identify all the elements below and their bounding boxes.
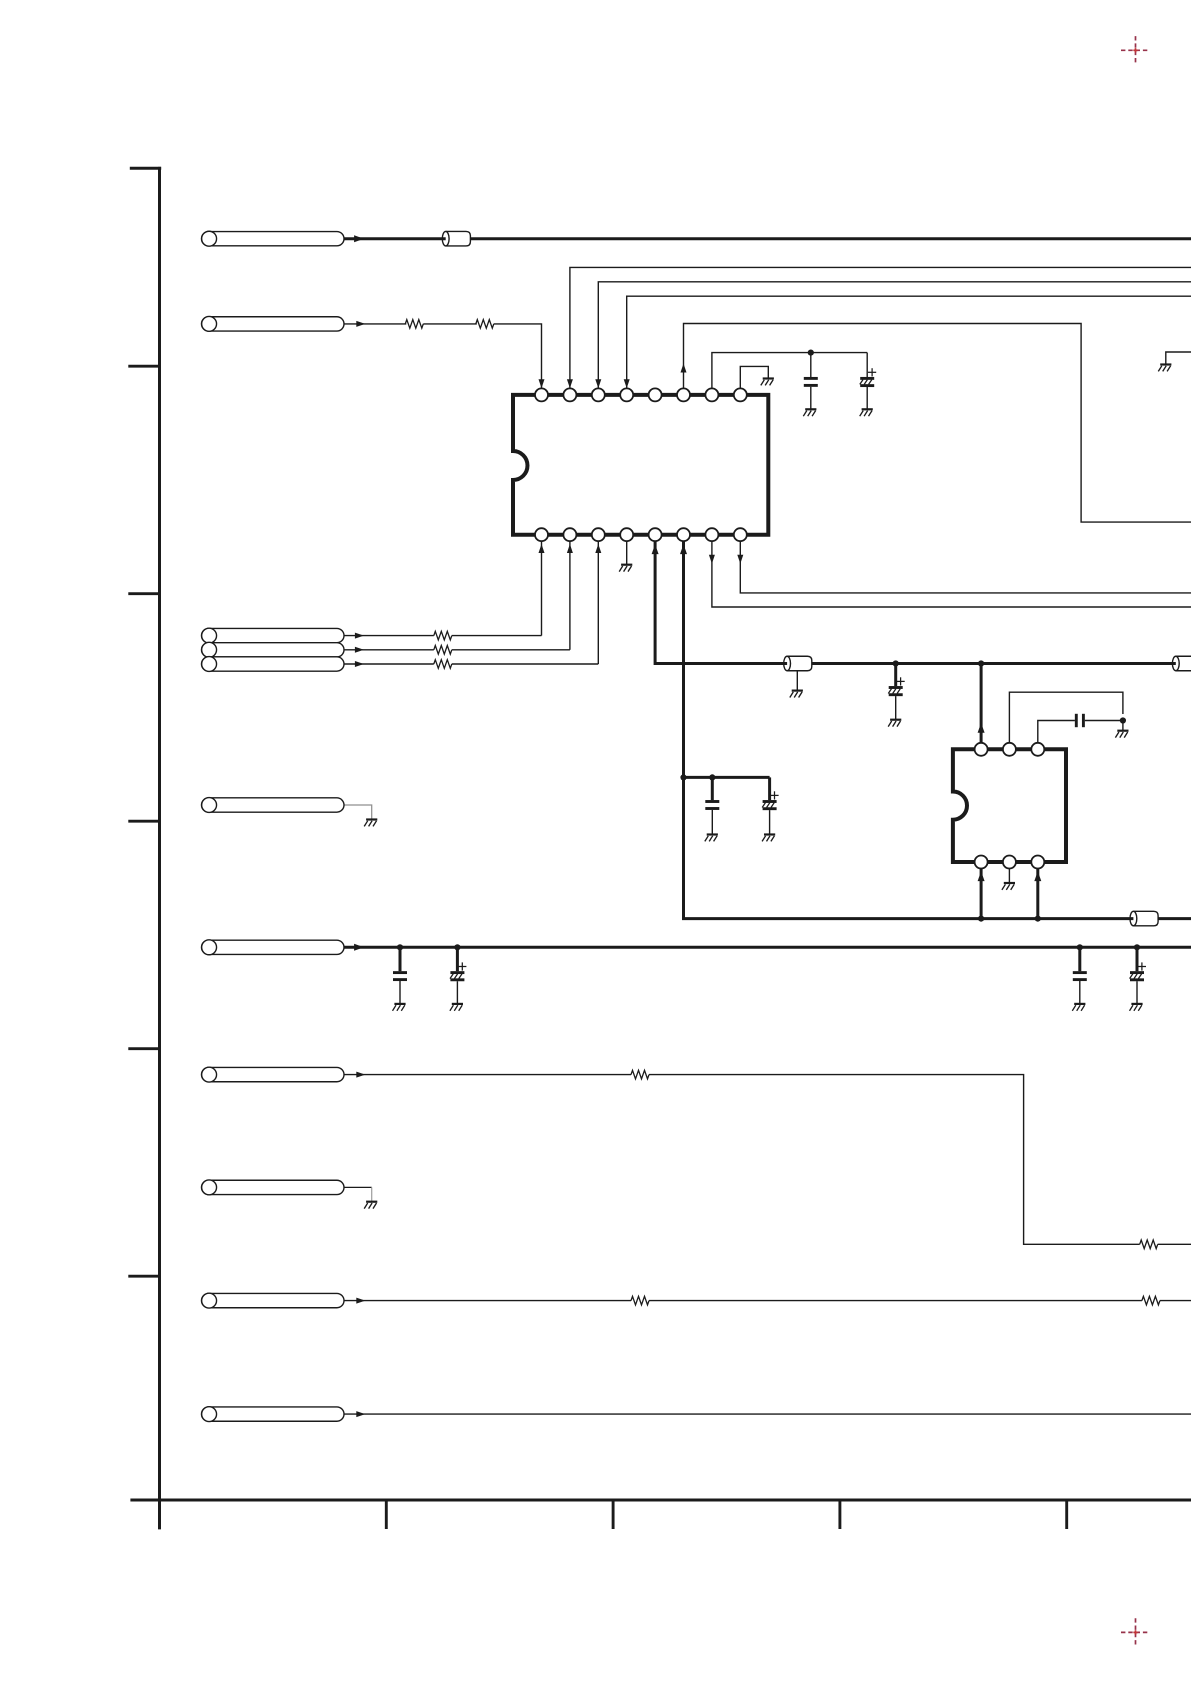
ground C9 [1130,1004,1143,1011]
U1 pin 7 (top) [705,388,718,401]
arrow into U1 pin 2 [567,379,573,388]
wire C1 to ground [810,387,812,409]
U1 pin 6 (top) [677,388,690,401]
arrow into U1 pin 4 [624,379,630,388]
U1 pin 1 (top) [535,388,548,401]
ground U1 pin 13 [619,565,632,572]
wire U2 pin 5 to ground [1008,869,1010,883]
ferrite bead FB2 [784,656,812,671]
wire U1 pin 6 net [684,324,1191,523]
U2 pin 1 (top) [975,743,988,756]
registration mark top right [1121,36,1150,64]
ground page-edge stub [1158,365,1171,372]
wire CN3 to U1 pin 16 riser [541,541,543,635]
node junction U2 pin 4 feed [978,916,984,922]
wire R9 to page edge [1160,1300,1191,1302]
arrow CN4 signal direction [355,647,364,653]
arrow into U2 pin 6 [1034,871,1041,881]
page frame bottom border [130,1499,1191,1502]
wire U1 pin 9 net [740,541,1191,593]
U1 pin 14 (bottom) [592,528,605,541]
wire U1 pin 7 net [712,353,867,389]
wire CN7 bus (thick) [344,946,1191,949]
node junction C6 [397,944,403,950]
U1 pin 16 (bottom) [535,528,548,541]
wire FB2 ground stub [796,671,798,690]
ground C8 [1072,1004,1085,1011]
wire C8 to ground [1079,981,1081,1003]
connector CN1 [202,231,345,246]
node junction C3 [893,660,899,666]
capacitor C8 [1073,973,1087,980]
page frame bottom tick 2 [612,1500,615,1529]
capacitor C7 (electrolytic) [450,962,466,979]
wire stem C3 (thick) [894,664,897,687]
page frame bottom tick 1 [385,1500,388,1529]
U2 pin 2 (top) [1003,743,1016,756]
wire CN10 to R8 [344,1300,631,1302]
U1 pin 3 (top) [592,388,605,401]
U1 pin 12 (bottom) [649,528,662,541]
wire stem C2 [866,353,868,377]
connector CN5 [202,657,345,672]
wire CN11 to page edge [344,1413,1191,1415]
wire pin11 branch (thick) [684,776,770,779]
ground C5 [762,835,775,842]
wire U1 pin 4 net [627,296,1191,388]
U1 pin 13 (bottom) [620,528,633,541]
page frame left tick 6 [128,1275,159,1278]
resistor R9 [1142,1296,1160,1305]
capacitor C3 (electrolytic) [888,677,904,694]
wire C5 to ground [769,810,771,834]
U1 pin 8 (top) [734,388,747,401]
arrow into U1 pin 1 [539,379,545,388]
wire U1 pin 3 net [598,282,1191,388]
wire CN2 to R1 [344,323,406,325]
capacitor C9 (electrolytic) [1130,962,1146,979]
U1 pin 5 (top) [649,388,662,401]
wire R6 to R7 [649,1075,1140,1245]
connector CN7 [202,940,345,955]
U2 pin 5 (bottom) [1003,856,1016,869]
resistor R4 [434,646,452,655]
arrow out of U1 pin 9 [737,555,743,564]
op-amp IC U1 body [513,395,768,535]
wire stem C9 (thick) [1136,947,1139,971]
U1 pin 10 (bottom) [705,528,718,541]
ferrite bead FB1 [442,231,470,246]
node junction U2 supply [978,660,984,666]
wire junction to U2 pin 4 (thick) [980,869,983,919]
arrow CN8 signal direction [356,1072,365,1078]
wire R3 to riser [452,635,542,637]
wire junction to U2 pin 1 (thick) [980,664,983,743]
ground C2 [860,409,873,416]
connector CN4 [202,642,345,657]
node junction C4 [709,774,715,780]
wire stem C5 (thick) [768,777,771,800]
wire U1 pin 8 net [740,366,768,388]
arrow out of U1 pin 10 [709,555,715,564]
resistor R1 [405,320,423,329]
ground C4 [705,835,718,842]
wire stem C8 (thick) [1078,947,1081,971]
page frame bottom tick 4 [1065,1500,1068,1529]
connector CN8 [202,1067,345,1082]
wire C6 to ground [399,981,401,1003]
arrow CN7 signal direction [354,944,364,951]
transistor array IC U2 body [953,749,1066,862]
arrow into U2 pin 1 [978,723,985,733]
wire junction to U2 pin 6 (thick) [1036,869,1039,919]
resistor R3 [434,631,452,640]
ground C1 [803,409,816,416]
arrow into U1 pin 3 [595,379,601,388]
connector CN2 [202,316,345,331]
capacitor C10 (coupling) [1076,714,1083,727]
U2 pin 4 (bottom) [975,856,988,869]
arrow into U1 pin 12 [652,544,659,554]
wire CN5 row [344,663,434,665]
U1 pin 15 (bottom) [563,528,576,541]
U1 pin 9 (bottom) [734,528,747,541]
wire CN4 to U1 pin 15 riser [569,541,571,649]
arrow CN3 signal direction [355,633,364,639]
page frame bottom tick 3 [838,1500,841,1529]
wire stem C1 [810,353,812,377]
node junction C7 [454,944,460,950]
page frame left tick 2 [128,365,159,368]
wire R4 to riser [452,649,570,651]
page frame left border [158,167,161,1530]
wire C2 to ground [866,387,868,409]
arrow CN2 signal direction [356,321,365,327]
page frame left tick 4 [128,820,159,823]
node junction U2 pin 6 feed [1035,916,1041,922]
wire C10 to junction [1085,720,1123,722]
ground CN6 [364,820,377,827]
connector CN10 [202,1293,345,1308]
resistor R6 [631,1070,649,1079]
ferrite bead FB4 at page edge [1172,656,1191,671]
wire U1 pin 11 net (thick) [684,541,1191,918]
U2 pin 6 (bottom) [1031,856,1044,869]
registration mark bottom right [1121,1618,1150,1646]
page frame left tick 5 [128,1047,159,1050]
ground CN9 [364,1202,377,1209]
resistor R7 [1140,1240,1158,1249]
wire stem C7 (thick) [456,947,459,971]
wire CN8 to R6 [344,1074,631,1076]
wire CN9 to ground [344,1187,372,1201]
wire C9 to ground [1136,981,1138,1003]
wire R5 to riser [452,663,599,665]
wire C7 to ground [456,981,458,1003]
ground C10 [1115,731,1128,738]
wire C4 to ground [711,810,713,834]
arrow CN1 signal direction [354,235,364,242]
wire CN6 to ground [344,805,372,819]
wire R1 to R2 [423,323,477,325]
wire U2 pin 2 net [1009,692,1123,743]
ferrite bead FB3 [1130,911,1158,926]
ground U1 pin 8 [761,379,774,386]
wire R2 to U1 pin 1 [494,324,542,388]
node junction pin11 branch [680,774,686,780]
wire R8 to R9 [649,1300,1142,1302]
arrow into U1 pin 15 [567,544,573,553]
wire C3 to ground [895,696,897,719]
node junction C8 [1077,944,1083,950]
U2 pin 3 (top) [1031,743,1044,756]
wire U2 pin 3 net [1038,721,1075,743]
wire page-edge ground stub [1166,352,1191,364]
page frame top corner tick [130,167,161,170]
ground U2 pin 5 [1002,883,1015,890]
U1 pin 2 (top) [563,388,576,401]
arrow into U1 pin 16 [539,544,545,553]
ground C6 [393,1004,406,1011]
wire stem C6 (thick) [399,947,402,971]
ground C3 [888,720,901,727]
connector CN3 [202,628,345,643]
wire stem C4 (thick) [711,777,714,800]
capacitor C4 [705,802,719,809]
wire R7 to page edge [1158,1243,1191,1245]
capacitor C1 [804,378,818,385]
arrow out of U1 pin 6 [681,364,687,373]
arrow CN5 signal direction [355,661,364,667]
node junction C9 [1134,944,1140,950]
wire U1 pin 2 net [570,267,1191,388]
node junction pin7 net [808,350,814,356]
wire U1 pin 13 to ground [626,541,628,564]
arrow into U1 pin 14 [595,544,601,553]
connector CN9 [202,1180,345,1195]
wire CN4 row [344,649,434,651]
arrow CN10 signal direction [356,1298,365,1304]
ground C7 [450,1004,463,1011]
arrow CN11 signal direction [356,1411,365,1417]
wire U1 pin 10 net [712,541,1191,607]
wire U1 pin 12 net (thick) [655,541,1191,663]
wire CN1 output (thick) [344,237,1191,240]
arrow into U2 pin 4 [978,871,985,881]
resistor R8 [631,1296,649,1305]
resistor R5 [434,660,452,669]
node junction C10 [1120,717,1126,723]
connector CN6 [202,798,345,813]
capacitor C6 [393,973,407,980]
U1 pin 4 (top) [620,388,633,401]
wire junction to ground [1122,721,1124,731]
wire CN3 row [344,635,434,637]
resistor R2 [476,320,494,329]
capacitor C2 (electrolytic) [860,368,876,385]
page frame left tick 3 [128,592,159,595]
connector CN11 [202,1407,345,1422]
U1 pin 11 (bottom) [677,528,690,541]
ground FB2 [790,691,803,698]
wire CN5 to U1 pin 14 riser [597,541,599,664]
arrow into U1 pin 11 [680,544,687,554]
capacitor C5 (electrolytic) [762,791,778,808]
